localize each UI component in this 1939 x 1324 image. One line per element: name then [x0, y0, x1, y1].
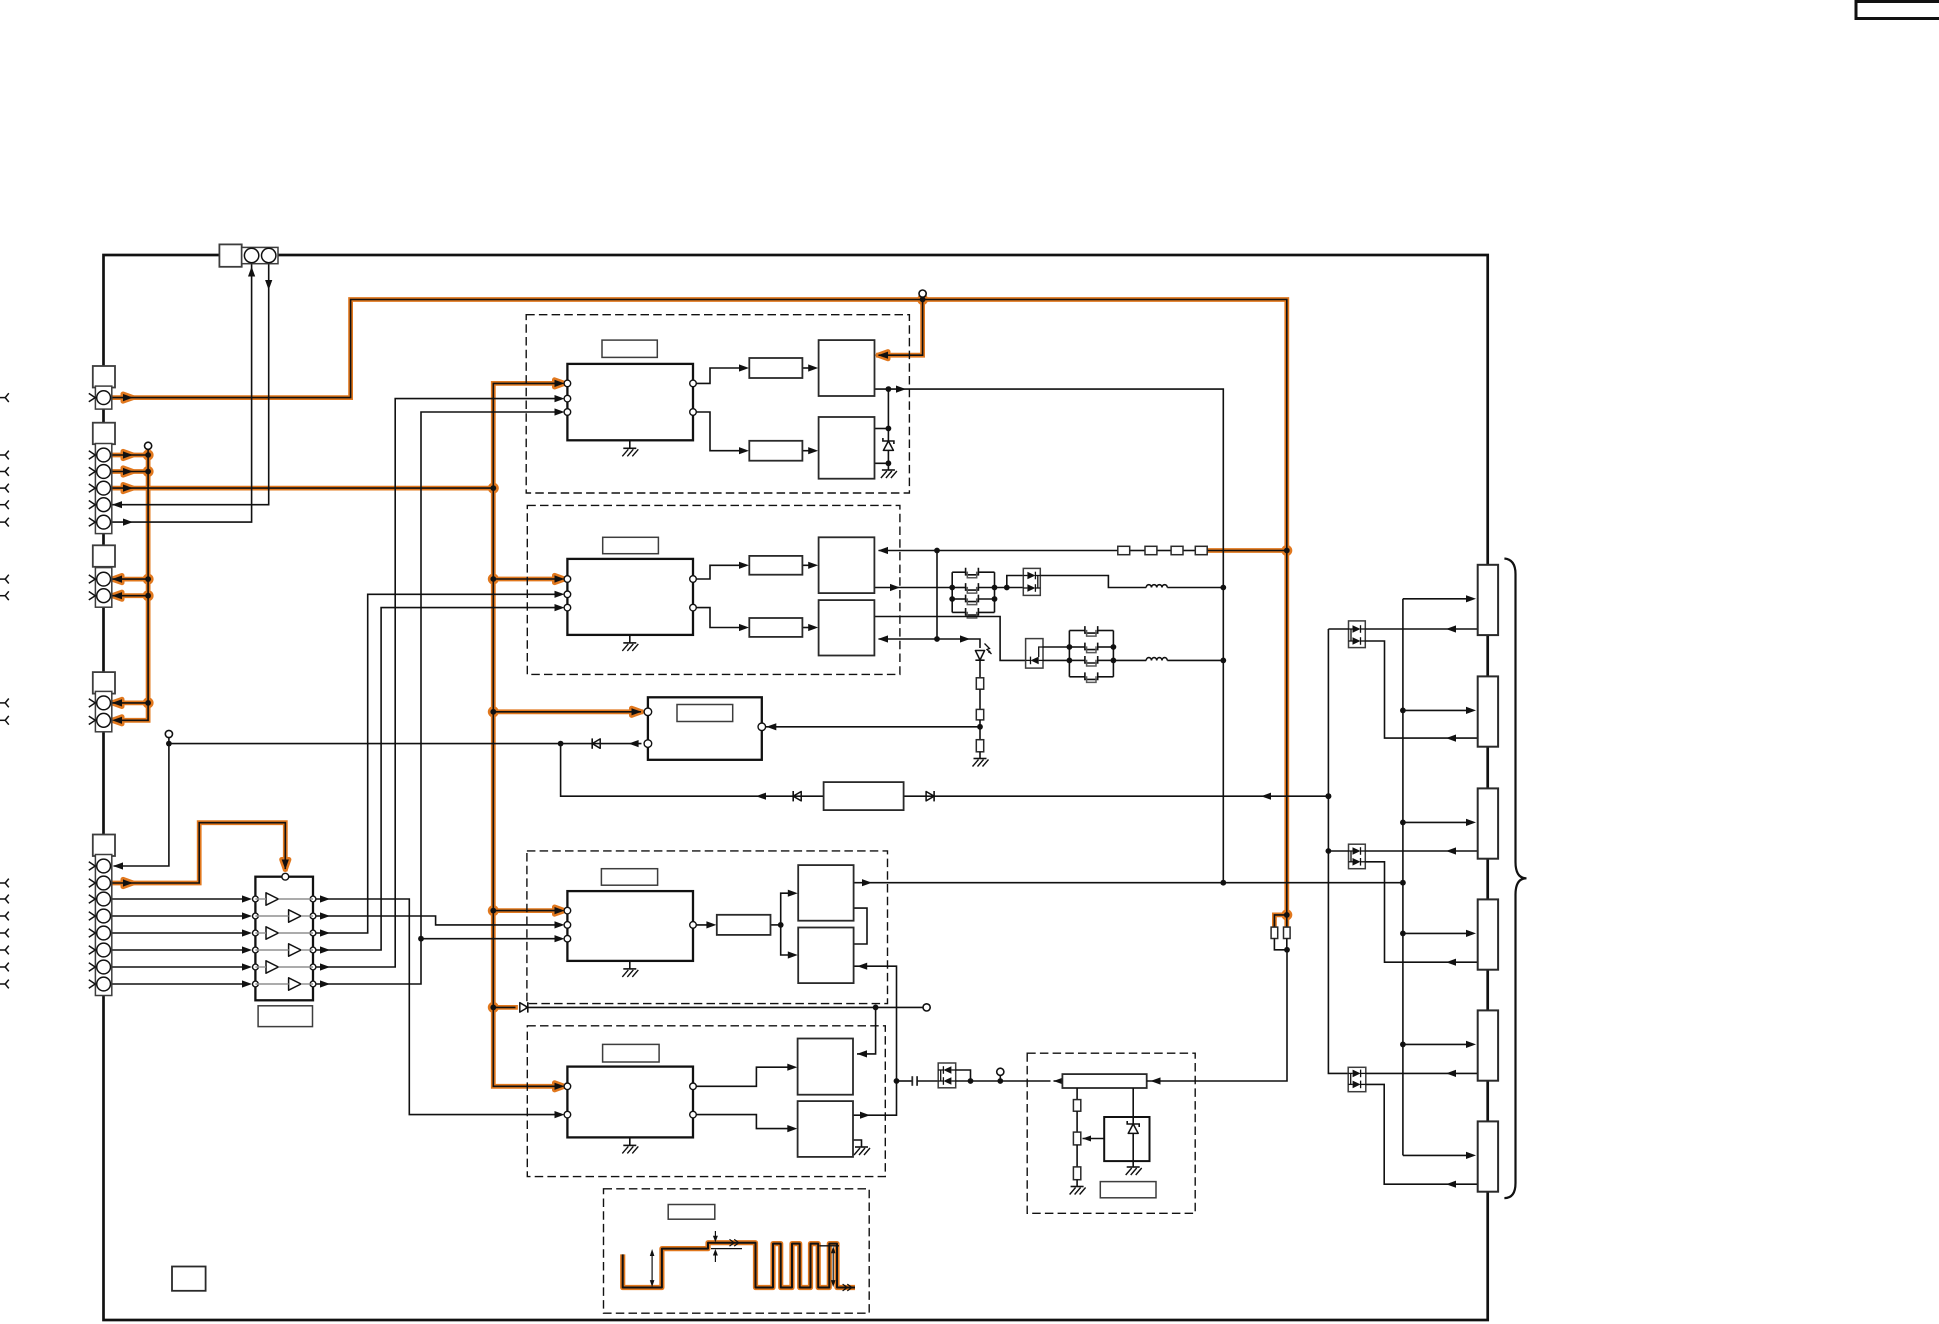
- inverter gate 1: [266, 893, 278, 905]
- block IC4 label: [603, 1044, 660, 1062]
- junction bus/power feed: [1220, 880, 1226, 886]
- diode D-b: [793, 791, 801, 801]
- resistor R6: [1073, 1167, 1080, 1180]
- wire feed to coil3: [1403, 821, 1467, 823]
- waveform pulse-top extension line: [820, 1245, 840, 1247]
- arrow into driver U2-B right: [878, 635, 888, 642]
- wire IC2 ground stub: [629, 635, 631, 643]
- arrow into IC2 pin1 (highlight): [555, 575, 565, 582]
- wire orange branch: trunk to motor driver pin1: [493, 711, 641, 713]
- resistor R7: [1271, 927, 1278, 938]
- inverter gate 3: [266, 927, 278, 939]
- wire U2-B output to diode D3: [874, 617, 1025, 661]
- arrow into regulator output: [1054, 1077, 1064, 1084]
- wire orange branch: G2 pin2: [110, 471, 148, 473]
- wire orange net: harness vertical at left connectors: [117, 449, 149, 720]
- wire orange branch: G3 pin1: [110, 578, 148, 580]
- wire supply rail between beads 3: [1182, 550, 1195, 552]
- wire U3-A/U3-B link: [854, 908, 867, 944]
- connector CN5 housing: [93, 835, 115, 857]
- arrow G4 pin2 feed (highlight): [112, 717, 122, 724]
- wire G5 pin6 to inverter in4: [110, 949, 242, 951]
- wire regulator left leg: [1076, 1088, 1078, 1100]
- wire divider tap to motor pin3: [766, 726, 980, 728]
- junction feed coil5: [1400, 1042, 1406, 1048]
- coil/resistor block M5: [1478, 1010, 1498, 1080]
- arrow G1 pin1 out (highlight): [123, 394, 133, 401]
- wire feed to coil5: [1403, 1043, 1467, 1045]
- frame border: [104, 255, 1488, 1320]
- junction C-net2 c: [1111, 644, 1117, 650]
- wire orange branch: trunk to motor driver pin1 (highlight): [493, 709, 641, 714]
- ground TL431: [1126, 1167, 1142, 1175]
- arrow G2 pin1 in: [123, 451, 133, 458]
- junction opto common/optoB: [1326, 848, 1332, 854]
- wire filter3 to driver U2-A: [802, 564, 814, 566]
- arrow G1 pin1 out: [123, 394, 133, 401]
- coil/resistor block M2: [1478, 676, 1498, 746]
- arrow into coil 2: [1466, 707, 1476, 714]
- wire orange branch: trunk to IC3 pin1: [493, 910, 560, 912]
- opto PC2: [1349, 844, 1366, 869]
- wire inverter out1 to IC4 pin2: [316, 899, 560, 1115]
- arrow G2 pin4 in: [112, 501, 122, 508]
- wire regulator right leg: [1132, 1088, 1134, 1124]
- wire orange branch: right trunk split to parallel resistors R-pair (highlight): [1274, 915, 1286, 927]
- inverter gate 5 rails: [255, 966, 266, 968]
- wire orange branch: G4 pin1: [110, 702, 148, 704]
- wire orange branch: resistor chain tail to right trunk (highlight): [1207, 548, 1287, 553]
- junction trunk/IC2 (highlight): [488, 574, 499, 585]
- arrow into IC3 pin1: [555, 907, 565, 914]
- junction C-net1 out2: [992, 596, 998, 602]
- wire driver U1-A output: [875, 389, 1224, 883]
- inverter gate 6 rails: [255, 983, 288, 985]
- wire supply rail between beads: [1130, 550, 1145, 552]
- block filter F6: [717, 915, 771, 935]
- arrow G3 pin1 feed (highlight): [112, 576, 122, 583]
- junction motor power feed: [1400, 880, 1406, 886]
- wire R2 to R3: [979, 720, 981, 740]
- wire PC2 to coil4: [1365, 862, 1477, 962]
- inverter gate 2 rails: [255, 915, 288, 917]
- arrow inverter in3: [242, 929, 252, 936]
- junction trunk/R-pair (highlight): [1281, 909, 1292, 920]
- coil/resistor block M4: [1478, 899, 1498, 969]
- wire regulator input from R-pair: [1147, 950, 1287, 1081]
- junction out6/IC3 pin3: [418, 936, 424, 942]
- block motor controller label: [677, 705, 733, 722]
- wire orange branch: VM tap down to driver (top right): [879, 300, 923, 356]
- resistor bead FB3: [1171, 546, 1183, 554]
- wire orange branch: G2 pin2 (highlight): [110, 469, 148, 474]
- brace motor unit: [1504, 559, 1526, 1199]
- wire 5V rail: [526, 1006, 923, 1008]
- arrow into driver U3-A: [788, 890, 798, 897]
- block driver U4-B: [798, 1101, 853, 1157]
- junction trunk/motor: [490, 709, 496, 715]
- opto PC3: [1348, 1067, 1366, 1091]
- block page-ref top-right: [1856, 2, 1939, 19]
- wire feed to coil 1: [1403, 598, 1467, 600]
- junction C-net2 a: [1067, 644, 1073, 650]
- junction trunk/R-pair: [1284, 912, 1290, 918]
- wire U1-B upper to zener D1: [875, 428, 889, 430]
- arrow G4 pin1 feed (highlight): [112, 699, 122, 706]
- arrow into driver U1-A: [808, 364, 818, 371]
- wire orange branch: trunk to diode feed of supply rail (highlight): [493, 1005, 515, 1010]
- arrow motor power: [862, 879, 872, 886]
- wire supply rail to driver U2-A: [879, 550, 1118, 552]
- block regulator label: [1100, 1182, 1156, 1198]
- arrow trimmer wiper: [1083, 1136, 1092, 1142]
- arrow into IC2 pin2: [555, 591, 565, 598]
- arrow into driver U4-A: [857, 1050, 867, 1057]
- arrow into driver U2-A right: [878, 547, 888, 554]
- arrow feedback flow left: [756, 793, 766, 800]
- wire orange net: harness vertical at left connectors (highlight): [117, 449, 149, 720]
- ground U4-B: [854, 1147, 870, 1155]
- block note bottom-left: [172, 1267, 206, 1291]
- junction filter5 out: [778, 922, 784, 928]
- block filter F4: [749, 618, 802, 637]
- wire inductor L2 to bus: [1167, 659, 1223, 661]
- arrow inverter in1: [242, 895, 252, 902]
- resistor bead FB1: [1118, 546, 1130, 554]
- arrow into coil 6: [1466, 1152, 1476, 1159]
- block filter F1: [749, 358, 802, 378]
- wire G5 pin8 to inverter in6: [110, 983, 242, 985]
- junction trunk/G2pin3 (highlight): [488, 483, 499, 494]
- wire C-net1 to diode pack lower: [1007, 587, 1024, 589]
- junction cap node: [894, 1078, 900, 1084]
- inverter gate 5: [266, 961, 278, 973]
- wire orange branch: G3 pin2 (highlight): [110, 593, 148, 598]
- inverter gate 1 rails: [255, 898, 266, 900]
- block regulator series element: [1062, 1074, 1146, 1088]
- junction feed coil4: [1400, 931, 1406, 937]
- wire feedback lower rail: [561, 744, 824, 797]
- arrow into IC1 pin2: [555, 395, 565, 402]
- wire G5 pin4 to inverter in2: [110, 915, 242, 917]
- junction trunk/G2pin3: [490, 485, 496, 491]
- arrow G2 pin2 in (highlight): [123, 468, 133, 475]
- wire top terminal A down to G2 pin5: [110, 264, 251, 522]
- IC2 pins: [564, 576, 696, 611]
- inverter gate 4 rails: [255, 949, 288, 951]
- arrow G4 pin1 feed: [112, 699, 122, 706]
- junction feedback/opto common: [1326, 793, 1332, 799]
- arrow into U4-A left: [787, 1064, 797, 1071]
- block dashed motor-drive section 2: [527, 505, 900, 674]
- junction VM (highlight): [917, 294, 928, 305]
- wire inverter out2 to IC3 pin2: [316, 916, 560, 925]
- arrow into driver U2-B: [808, 624, 818, 631]
- arrow coil2 sense: [1446, 735, 1456, 742]
- wire inverter out3 to IC2 pin2: [316, 594, 560, 933]
- IC1 pins: [564, 380, 696, 415]
- wire R5 to R6: [1076, 1145, 1078, 1167]
- arrow into IC3 pin2: [555, 921, 565, 928]
- wire C9 to opto D6: [917, 1080, 938, 1082]
- arrow U1-A output: [896, 386, 906, 393]
- block IC1 label: [602, 340, 657, 357]
- resistor bead FB2: [1145, 546, 1157, 554]
- terminal 5V rail: [923, 1004, 930, 1011]
- ground LED chain: [973, 759, 989, 767]
- wire U4-B ground stub: [853, 1140, 862, 1147]
- wire LED to R1: [979, 660, 981, 678]
- block driver U4-A: [798, 1039, 853, 1095]
- wire U3-B input from regulator: [854, 966, 897, 1081]
- block inverter label: [258, 1006, 312, 1027]
- junction bottom feedback: [558, 741, 564, 747]
- wire VM terminal stub: [922, 297, 924, 300]
- arrow into motor pin3: [766, 723, 776, 730]
- arrow into filter5: [706, 921, 716, 928]
- junction divider tap: [977, 724, 983, 730]
- opto PC1: [1349, 621, 1366, 648]
- wire G5 pin3 to inverter in1: [110, 898, 242, 900]
- inductor L2: [1146, 658, 1167, 661]
- junction trunk/IC3 (highlight): [488, 905, 499, 916]
- arrow into IC3 pin3: [555, 935, 565, 942]
- wire top terminal B down to G2 pin4: [112, 264, 269, 505]
- op-amp IC1: [567, 364, 693, 440]
- wire filter4 to driver U2-B: [802, 627, 814, 629]
- arrow inverter out2: [320, 912, 330, 919]
- junction 5V rail: [873, 1005, 879, 1011]
- wire orange net: G2 pin3 to vertical trunk: [110, 487, 493, 489]
- diode zener D1: [883, 429, 894, 464]
- arrow into filter1: [739, 364, 749, 371]
- junction R-pair out: [1284, 947, 1290, 953]
- wire node T1 to G5 pin1 and PWM line: [114, 738, 169, 867]
- arrow inverter out1: [320, 895, 330, 902]
- op-amp IC2: [567, 559, 693, 635]
- wire node T1 right to junction: [169, 743, 561, 745]
- wire orange branch: G3 pin2: [110, 595, 148, 597]
- arrow G2 pin2 in: [123, 468, 133, 475]
- capacitor network C5-C8: [1069, 626, 1113, 682]
- wire R-pair right leg: [1286, 920, 1288, 927]
- arrow trunk to motor pin1: [632, 708, 642, 715]
- wire D3 out: [1043, 659, 1069, 661]
- junction test point TP2: [997, 1078, 1003, 1084]
- wire to driver U3-B: [781, 925, 794, 955]
- wire PC2 left: [1328, 850, 1348, 852]
- junction harness G4p1: [145, 700, 151, 706]
- junction VM: [920, 297, 926, 303]
- arrow G2 pin5 out: [123, 519, 133, 526]
- diode pack D2: [1023, 568, 1040, 595]
- junction trunk/motor (highlight): [488, 706, 499, 717]
- wire orange branch: G4 pin1 (highlight): [110, 701, 148, 706]
- wire orange net: G5 pin2 to inverter bank enable (highlight): [110, 823, 285, 883]
- wire orange branch: trunk to IC2 pin1: [493, 578, 560, 580]
- arrow G3 pin2 feed (highlight): [112, 592, 122, 599]
- ground IC2: [622, 643, 638, 651]
- block motor controller: [648, 697, 762, 760]
- LED D4: [975, 644, 991, 661]
- arrow into coil 1: [1466, 595, 1476, 602]
- waveform dimension left: [650, 1249, 655, 1287]
- wire U1-A out down to zener D1: [887, 389, 889, 428]
- ground below zener D1: [881, 470, 897, 478]
- block dashed motor-drive section 1: [526, 315, 909, 493]
- capacitor network C1-C4: [952, 568, 994, 618]
- arrow coil3 sense: [1446, 847, 1456, 854]
- junction D6 out: [968, 1078, 974, 1084]
- block driver U2-A: [819, 537, 875, 593]
- connector CN3 housing: [93, 545, 115, 567]
- junction U1-A out: [886, 386, 892, 392]
- wire arrow to regulator rect: [1054, 1080, 1063, 1082]
- wire orange branch: G2 pin1: [110, 454, 148, 456]
- ground IC4: [622, 1145, 638, 1153]
- wire filter2 to driver U1-B: [802, 450, 814, 452]
- wire orange branch: VM tap down to driver (top right) (highlight): [879, 300, 923, 356]
- wire R-pair left leg: [1273, 920, 1275, 927]
- wire R-pair join: [1274, 939, 1287, 950]
- wire motor power feed: [854, 882, 1403, 884]
- wire PC1 to coil1: [1365, 628, 1477, 630]
- junction trunk/5V diode (highlight): [488, 1002, 499, 1013]
- arrow into IC2 pin1: [555, 575, 565, 582]
- wire inverter out6 to IC1 pin3: [316, 412, 560, 984]
- off-page stubs left edge: [0, 393, 9, 988]
- wire C-net2 to inductor L2: [1113, 659, 1146, 661]
- wire IC1 out2 to filter2: [693, 412, 745, 451]
- diode zener TL431: [1127, 1121, 1139, 1167]
- arrow down from top terminal B: [265, 280, 272, 290]
- arrow G4 pin2 feed: [112, 717, 122, 724]
- wire orange branch: resistor chain tail to right trunk: [1207, 550, 1287, 552]
- wire filter5 out: [771, 924, 781, 926]
- terminal harness top: [145, 442, 152, 449]
- wire orange net: connector G1 pin1 to top rail to right trunk: [110, 300, 1286, 915]
- wire U4-B output up to cap node: [853, 1081, 897, 1115]
- arrow into driver U3-B right: [857, 963, 867, 970]
- arrow into coil 5: [1466, 1041, 1476, 1048]
- arrow to LED: [960, 635, 970, 642]
- wire orange net: connector G1 pin1 to top rail to right trunk (highlight): [110, 300, 1286, 915]
- opto diode pack D6: [938, 1063, 956, 1088]
- op-amp IC3: [567, 891, 693, 961]
- block dashed timing chart: [604, 1189, 870, 1313]
- wire supply tap down: [936, 551, 938, 640]
- wire PC2 to coil3: [1365, 850, 1477, 852]
- arrow inverter out3: [320, 929, 330, 936]
- ground divider: [1070, 1187, 1086, 1195]
- arrow into driver U3-B: [788, 951, 798, 958]
- arrow into IC1 pin3: [555, 408, 565, 415]
- block filter F2: [749, 441, 802, 461]
- wire G5 pin7 to inverter in5: [110, 966, 242, 968]
- arrow VM into driver U1-A: [878, 352, 888, 359]
- junction C-net1 in: [949, 585, 955, 591]
- wire orange net: G2 pin3 to vertical trunk (highlight): [110, 486, 493, 491]
- waveform break mark top: [730, 1239, 739, 1246]
- inverter gate 4: [289, 944, 301, 956]
- wire IC1 out1 to filter: [693, 368, 745, 383]
- IC4 pins: [564, 1083, 696, 1118]
- wire opto common vertical: [1328, 629, 1348, 1073]
- wire R3 to ground: [979, 752, 981, 759]
- ground IC3: [622, 969, 638, 977]
- resistor R2: [976, 709, 983, 720]
- junction harness G3p2 (highlight): [143, 590, 154, 601]
- block timing chart label: [668, 1205, 715, 1220]
- resistor R5 (trimmer): [1073, 1132, 1080, 1145]
- block driver U2-B: [819, 600, 875, 655]
- waveform dimension right: [831, 1246, 836, 1287]
- coil/resistor block M1: [1478, 565, 1498, 635]
- motor controller pins: [644, 708, 765, 747]
- connector CN4 housing: [93, 672, 115, 694]
- ground IC1: [622, 448, 638, 456]
- arrow inverter in4: [242, 946, 252, 953]
- wire C-net1 to diode pack: [995, 576, 1024, 588]
- arrow U2-A output: [890, 584, 900, 591]
- junction L1/bus: [1220, 585, 1226, 591]
- IC3 pins: [564, 907, 696, 942]
- arrow into IC3 pin1 (highlight): [555, 907, 565, 914]
- block filter F3: [749, 556, 802, 575]
- wire to driver U3-A: [781, 893, 794, 925]
- junction L2/bus: [1220, 658, 1226, 664]
- junction trunk/chain: [1284, 548, 1290, 554]
- junction trunk/5V diode: [490, 1005, 496, 1011]
- wire 5V rail to driver U4-A: [857, 1007, 876, 1054]
- wire R1 to R2: [979, 689, 981, 709]
- diode D-c: [926, 791, 934, 801]
- block dashed motor-drive section 3: [527, 851, 888, 1004]
- arrow U4-B output: [860, 1112, 870, 1119]
- block driver U1-B: [819, 417, 875, 479]
- coil/resistor block M3: [1478, 788, 1498, 858]
- waveform step annotation: [711, 1231, 742, 1262]
- block driver U3-B: [798, 928, 853, 984]
- waveform trace (highlight): [623, 1243, 855, 1288]
- arrow into filter4: [739, 624, 749, 631]
- wire IC4 ground stub: [629, 1137, 631, 1145]
- arrow G2 pin3 out (highlight): [123, 485, 133, 492]
- wire PC3 to coil6: [1366, 1084, 1478, 1184]
- resistor R3: [976, 740, 983, 752]
- arrow VM into driver U1-A (highlight): [878, 352, 888, 359]
- wire D3 to C-net2 rail: [1043, 646, 1069, 648]
- resistor R1: [976, 678, 983, 689]
- block filter F5: [824, 782, 904, 810]
- inverter gate 6: [289, 978, 301, 990]
- wire orange net: main distribution trunk: [493, 383, 560, 1086]
- junction trunk/IC2: [490, 576, 496, 582]
- wire orange branch: G3 pin1 (highlight): [110, 577, 148, 582]
- wire PC1 left: [1328, 628, 1348, 630]
- coil/resistor block M6: [1478, 1121, 1498, 1191]
- arrow into U4-B left: [787, 1125, 797, 1132]
- wire branch out6 to IC3 pin3: [421, 938, 560, 940]
- arrow inverter out6: [320, 980, 330, 987]
- terminal T1 open circle: [165, 730, 172, 737]
- arrow inverter in6: [242, 980, 252, 987]
- arrow into coil 3: [1466, 819, 1476, 826]
- arrow inverter out4: [320, 946, 330, 953]
- resistor R8: [1284, 927, 1291, 938]
- junction opto common/feedback: [1326, 793, 1332, 799]
- junction C-net1 in2: [949, 596, 955, 602]
